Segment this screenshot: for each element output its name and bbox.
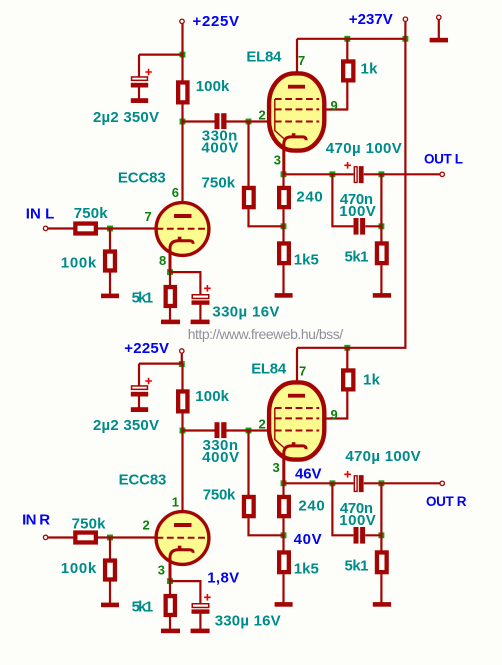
svg-text:5k1: 5k1 [345, 557, 369, 574]
svg-text:6: 6 [172, 185, 179, 200]
svg-text:100k: 100k [61, 254, 97, 271]
wire +225V to 100k [181, 364, 183, 390]
wire OUT line (470u to terminal) [364, 173, 440, 175]
junction 470u left [329, 480, 335, 486]
node +237V terminal [403, 17, 407, 21]
wire ECC83 anode lead [181, 122, 183, 215]
wire cathode node to 330u cap [169, 272, 200, 294]
wire anode node to 330n [183, 429, 215, 431]
resistor 100k (ECC83 anode load) [178, 391, 187, 411]
wire input terminal to 750k [48, 227, 73, 229]
wire cathode node to 240 [282, 174, 284, 186]
wire 330u to ground [199, 305, 201, 320]
wire cathode node to 5k1 [169, 272, 171, 285]
svg-text:2µ2 350V: 2µ2 350V [93, 417, 159, 434]
svg-text:240: 240 [296, 189, 322, 206]
wire 470n branch left [332, 174, 353, 226]
svg-text:750k: 750k [202, 175, 236, 192]
svg-text:1,8V: 1,8V [207, 570, 239, 587]
EL84 anode plate bar [288, 394, 305, 398]
wire anode node to 330n [183, 120, 215, 122]
wire cathode node to 5k1 [169, 581, 171, 594]
triode ECC83 envelope [156, 203, 209, 256]
wire 1k5 to ground [282, 265, 284, 293]
svg-text:1: 1 [172, 495, 179, 510]
wire 1k to screen grid pin 9 [324, 391, 348, 418]
svg-text:ECC83: ECC83 [119, 472, 167, 489]
EL84 suppressor-to-cathode tie [275, 408, 284, 448]
ground (1k5) [275, 293, 293, 298]
wire 240 to 1k5 [282, 209, 284, 241]
ground (below 2u2 cap) [131, 407, 148, 412]
wire +225V terminal to junction [181, 24, 183, 55]
resistor 1k (screen grid) [343, 370, 353, 389]
svg-text:9: 9 [331, 98, 338, 113]
wire 330n to EL84 grid [226, 429, 284, 431]
wire 1k5 to ground [282, 574, 284, 602]
svg-text:5k1: 5k1 [132, 289, 154, 306]
junction ECC83 cathode node [167, 269, 173, 275]
resistor 750k (grid stopper, horizontal) [75, 224, 96, 234]
wire input terminal to 750k [48, 536, 73, 538]
EL84 anode plate bar [288, 85, 305, 89]
ground (chassis) [430, 38, 448, 43]
resistor 750k (EL84 grid leak) [244, 188, 254, 207]
ground (ECC83 cathode) [161, 629, 180, 634]
resistor 5k1 (output load) [377, 552, 387, 572]
wire HT bus [297, 347, 407, 349]
junction EL84 cathode node [281, 171, 287, 177]
capacitor 330u 16V (cathode bypass) [192, 295, 209, 299]
svg-text:100k: 100k [61, 560, 97, 577]
svg-text:2µ2 350V: 2µ2 350V [93, 109, 159, 126]
svg-text:3: 3 [273, 460, 280, 475]
wire OUT line (cathode to 470u) [284, 482, 354, 484]
junction input node [107, 535, 113, 541]
pentode EL84 envelope [269, 382, 324, 459]
svg-text:+237V: +237V [349, 11, 393, 28]
svg-text:46V: 46V [295, 466, 322, 483]
wire grid node down to 750k [247, 122, 249, 187]
wire EL84 anode lead [296, 348, 298, 394]
wire cap to ground [138, 396, 140, 407]
svg-text:7: 7 [298, 53, 305, 68]
svg-text:3: 3 [274, 153, 281, 168]
capacitor 470u 100V (output electrolytic) [354, 167, 357, 183]
pentode EL84 envelope [269, 73, 324, 150]
wire EL84 anode lead [296, 39, 298, 85]
wire +225V to 100k [181, 55, 183, 81]
svg-text:OUT L: OUT L [424, 152, 463, 167]
svg-text:+225V: +225V [124, 340, 169, 357]
node OUT R terminal [440, 481, 444, 485]
capacitor 330n 400V (coupling) [215, 422, 220, 438]
ECC83 cathode [170, 550, 193, 581]
ground (input 100k) [101, 603, 119, 608]
junction anode/coupling node [180, 428, 186, 434]
svg-text:1k: 1k [363, 371, 381, 388]
EL84 cathode [284, 137, 306, 174]
svg-text:ECC83: ECC83 [118, 169, 166, 186]
svg-text:7: 7 [299, 364, 306, 379]
ground (330u cap) [191, 320, 210, 325]
junction 1k top [344, 345, 350, 351]
resistor 5k1 (output load) [377, 243, 387, 263]
junction +225V node [180, 52, 186, 58]
node IN R terminal [43, 535, 47, 539]
resistor 100k (grid leak) [105, 561, 115, 580]
resistor 5k1 (cathode bias) [166, 596, 175, 615]
resistor 750k (EL84 grid leak) [244, 497, 254, 516]
svg-text:100V: 100V [339, 512, 376, 529]
wire chassis terminal [438, 20, 440, 38]
wire 470n branch left [332, 483, 353, 535]
wire 5k1 to ground [169, 617, 171, 629]
svg-text:470µ 100V: 470µ 100V [345, 448, 420, 465]
junction 470u right [378, 480, 384, 486]
wire HT bus [297, 38, 407, 40]
wire 330n to EL84 grid [226, 120, 284, 122]
capacitor 330u 16V (cathode bypass) [192, 604, 209, 608]
svg-text:7: 7 [145, 209, 152, 224]
wire 5k1 to ground [380, 574, 382, 602]
svg-text:2: 2 [143, 518, 150, 533]
ground (below 2u2 cap) [131, 98, 148, 103]
svg-text:40V: 40V [294, 531, 322, 548]
wire 330u to ground [199, 614, 201, 629]
wire OUT line (470u to terminal) [364, 482, 440, 484]
capacitor 330n 400V (coupling) [215, 113, 220, 129]
junction 470u left [329, 171, 335, 177]
wire input node down to 100k [109, 538, 111, 559]
ground (input 100k) [101, 294, 119, 299]
wire 100k to ground [109, 272, 111, 294]
resistor 5k1 (cathode bias) [166, 287, 175, 306]
svg-text:100k: 100k [195, 388, 229, 405]
triode ECC83 envelope [156, 512, 209, 565]
junction +225V node [179, 361, 185, 367]
wire +225V bus to filter cap [139, 53, 183, 55]
ground (5k1) [373, 602, 391, 607]
ECC83 anode plate bar [174, 523, 192, 527]
wire 750k to bias node [249, 518, 284, 535]
wire 750k to grid [98, 227, 157, 229]
wire input node down to 100k [109, 229, 111, 250]
wire HT rail down to right channel [404, 39, 406, 348]
svg-text:330µ 16V: 330µ 16V [212, 303, 279, 320]
EL84 grids (dashed) [275, 99, 319, 122]
ground (330u cap) [191, 629, 210, 634]
junction bias divider node [281, 223, 287, 229]
EL84 suppressor-to-cathode tie [275, 99, 284, 139]
svg-text:IN L: IN L [26, 205, 55, 222]
ECC83 grid (dashed) [157, 228, 209, 230]
ground (5k1) [373, 293, 391, 298]
svg-text:240: 240 [298, 498, 324, 515]
svg-text:IN R: IN R [22, 511, 50, 528]
svg-text:3: 3 [158, 563, 165, 578]
wire 100k to ground [109, 581, 111, 603]
capacitor 2u2 350V (electrolytic, + plate) [132, 386, 148, 389]
svg-text:400V: 400V [201, 140, 238, 157]
svg-text:330µ 16V: 330µ 16V [215, 613, 281, 630]
wire 5k1 to ground [380, 265, 382, 293]
capacitor 2u2 350V (electrolytic, + plate) [132, 77, 148, 80]
wire cap to ground [138, 87, 140, 98]
wire cathode node to 240 [282, 483, 284, 495]
EL84 grids (dashed) [275, 408, 319, 431]
wire bus to 1k [346, 348, 348, 369]
junction 5k1 top [378, 532, 384, 538]
resistor 1k5 [279, 243, 289, 263]
svg-text:http://www.freeweb.hu/bss/: http://www.freeweb.hu/bss/ [188, 326, 344, 342]
junction anode/coupling node [180, 119, 186, 125]
node chassis terminal [437, 15, 441, 19]
node +225V terminal (L channel) [180, 19, 184, 23]
resistor 240 (cathode bias) [279, 188, 289, 207]
ground (ECC83 cathode) [161, 320, 180, 325]
node OUT L terminal [440, 172, 444, 176]
wire 100k to anode node [181, 104, 183, 121]
svg-text:EL84: EL84 [251, 360, 287, 377]
svg-text:5k1: 5k1 [132, 598, 154, 615]
wire +225V terminal to junction [181, 354, 183, 365]
EL84 cathode [284, 446, 306, 483]
svg-text:EL84: EL84 [246, 49, 282, 66]
resistor 100k (grid leak) [105, 252, 115, 271]
wire OUT line (cathode to 470u) [284, 173, 354, 175]
wire bus to 1k [346, 39, 348, 60]
junction 5k1 top [378, 223, 384, 229]
ECC83 anode plate bar [174, 214, 192, 218]
wire 5k1 to ground [169, 308, 171, 320]
capacitor 470u 100V (output electrolytic) [354, 476, 357, 492]
svg-text:1k5: 1k5 [294, 560, 319, 577]
junction input node [107, 226, 113, 232]
capacitor 470n 100V [354, 218, 359, 235]
ECC83 grid (dashed) [157, 537, 209, 539]
wire 240 to 1k5 [282, 518, 284, 550]
wire 470n right to 5k1 [365, 534, 381, 536]
junction grid node [246, 428, 252, 434]
resistor 750k (grid stopper, horizontal) [75, 533, 96, 543]
wire 470n right to 5k1 [365, 225, 381, 227]
junction EL84 cathode node [281, 480, 287, 486]
svg-text:5k1: 5k1 [345, 248, 369, 265]
wire grid node down to 750k [247, 431, 249, 496]
ground (1k5) [275, 602, 293, 607]
wire +237V terminal to bus [404, 22, 406, 39]
junction grid node [246, 119, 252, 125]
node IN L terminal [43, 226, 47, 230]
resistor 240 (cathode bias) [279, 497, 289, 516]
resistor 1k (screen grid) [343, 61, 353, 80]
wire 1k to screen grid pin 9 [324, 82, 348, 109]
svg-text:400V: 400V [202, 449, 239, 466]
resistor 100k (ECC83 anode load) [178, 82, 187, 102]
capacitor 470n 100V [354, 527, 359, 544]
svg-text:1k: 1k [361, 60, 379, 77]
svg-text:750k: 750k [203, 487, 236, 504]
junction bias divider node [281, 532, 287, 538]
wire +225V bus to filter cap [139, 363, 183, 365]
svg-text:+225V: +225V [193, 13, 240, 30]
svg-text:750k: 750k [72, 515, 107, 532]
svg-text:100k: 100k [196, 78, 230, 95]
wire 750k to grid [98, 536, 157, 538]
junction 470u right [378, 171, 384, 177]
node +225V terminal (R channel) [180, 349, 184, 353]
wire ECC83 anode lead [181, 431, 183, 524]
svg-text:8: 8 [159, 253, 166, 268]
svg-text:1k5: 1k5 [294, 251, 319, 268]
junction +237V node [402, 36, 408, 42]
junction 1k top [344, 36, 350, 42]
wire 750k to bias node [249, 209, 284, 226]
svg-text:100V: 100V [339, 203, 376, 220]
svg-text:750k: 750k [74, 205, 109, 222]
svg-text:470µ 100V: 470µ 100V [326, 140, 402, 157]
resistor 1k5 [279, 552, 289, 572]
wire 100k to anode node [181, 413, 183, 430]
svg-text:2: 2 [259, 107, 266, 122]
svg-text:9: 9 [331, 407, 338, 422]
ECC83 cathode [170, 241, 193, 272]
wire cathode node to 330u cap [169, 581, 200, 603]
junction ECC83 cathode node [167, 578, 173, 584]
svg-text:2: 2 [259, 416, 266, 431]
svg-text:OUT R: OUT R [426, 494, 467, 509]
